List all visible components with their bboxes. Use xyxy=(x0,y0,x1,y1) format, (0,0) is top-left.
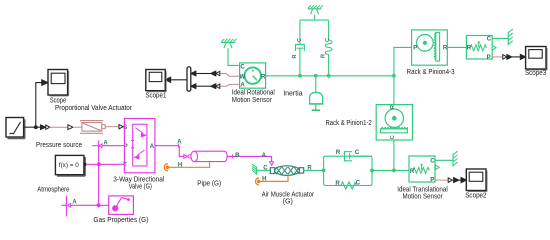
muscle thermal port H xyxy=(256,175,288,185)
wire bus up to rack4-3 xyxy=(394,47,412,75)
arrow into Scope3 xyxy=(520,54,525,59)
svg-text:A: A xyxy=(177,139,182,145)
svg-text:T: T xyxy=(123,163,127,169)
label Pipe (G) xyxy=(197,181,221,188)
spring-damper loop frame xyxy=(324,156,372,185)
spring labels xyxy=(335,181,360,188)
spring bottom branch xyxy=(341,182,356,189)
ps wire actuator to valve S xyxy=(105,126,119,128)
port T xyxy=(123,163,127,169)
port P xyxy=(124,144,128,150)
label Scope3 xyxy=(525,70,546,77)
wire pipe B to muscle A xyxy=(227,154,271,161)
label Rack & Pinion1-2 xyxy=(325,120,371,127)
label Proportional Valve Actuator xyxy=(55,105,133,112)
junction below rack1-2 xyxy=(392,169,396,173)
scope Scope2 xyxy=(466,169,487,192)
svg-text:R: R xyxy=(443,46,448,52)
junction loop left xyxy=(322,169,326,173)
block Pipe (G) xyxy=(191,151,227,161)
svg-text:R: R xyxy=(335,181,340,187)
wire valve A to pipe xyxy=(155,144,184,157)
mux xyxy=(187,67,191,91)
svg-text:Scope1: Scope1 xyxy=(145,92,166,99)
connection label A (to valve P) xyxy=(92,141,108,148)
junction bus spring xyxy=(327,74,331,78)
ps wire P to Scope2 xyxy=(435,179,449,181)
svg-text:A: A xyxy=(240,83,245,89)
junction bus damper xyxy=(298,74,302,78)
svg-text:Pressure source: Pressure source xyxy=(36,142,82,149)
svg-text:Valve (G): Valve (G) xyxy=(129,184,152,191)
spring branch labels xyxy=(321,38,332,58)
svg-text:W: W xyxy=(239,74,245,80)
svg-text:A: A xyxy=(72,200,77,206)
atmosphere connection cross xyxy=(61,196,77,217)
label B xyxy=(235,153,240,159)
svg-text:(G): (G) xyxy=(283,199,293,206)
arrow into mux bottom xyxy=(191,84,196,89)
converter to Scope3 xyxy=(503,55,512,60)
svg-text:Atmosphere: Atmosphere xyxy=(37,186,69,193)
arrow into Scope1 xyxy=(165,77,171,82)
svg-text:A: A xyxy=(150,144,155,150)
wire A-label to valve P xyxy=(102,145,124,147)
wire bus to inertia xyxy=(315,76,317,93)
wall bottom right xyxy=(453,151,458,166)
physical signal wire to actuator xyxy=(73,126,82,128)
svg-text:R: R xyxy=(321,54,327,58)
port R muscle xyxy=(307,165,312,171)
svg-text:C: C xyxy=(325,38,331,42)
label 3-Way Directional Valve (G) xyxy=(113,176,164,190)
block Gas Properties (G) xyxy=(109,196,134,215)
pipe inlet port circle xyxy=(188,155,191,158)
wire wall to muscle xyxy=(257,169,271,171)
rotational damper branch xyxy=(296,20,305,76)
block Air Muscle Actuator (G) xyxy=(270,166,303,176)
wire loop to sensor xyxy=(372,169,409,171)
converter to Scope2 xyxy=(448,178,459,183)
label A at muscle xyxy=(262,153,267,159)
wire to Scope2 xyxy=(459,179,462,181)
svg-text:Motion Sensor: Motion Sensor xyxy=(403,193,444,200)
ps wire W to converter xyxy=(219,74,240,77)
wire to Scope3 xyxy=(512,56,521,58)
label Scope xyxy=(50,98,66,105)
wire A to mux xyxy=(196,85,211,87)
svg-text:Rack & Pinion1-2: Rack & Pinion1-2 xyxy=(325,120,371,127)
label A at pipe inlet xyxy=(177,139,182,145)
converter A xyxy=(211,84,220,89)
vertical trunk wire xyxy=(98,141,100,206)
label Ideal Rotational Motion Sensor xyxy=(232,90,275,104)
svg-text:Rack & Pinion4-3: Rack & Pinion4-3 xyxy=(407,69,455,76)
scope Scope xyxy=(48,70,69,97)
label Gas Properties (G) xyxy=(93,217,148,224)
svg-text:Pipe (G): Pipe (G) xyxy=(197,181,221,188)
arrow into mux top xyxy=(191,71,196,76)
svg-text:C: C xyxy=(390,135,396,139)
block translational sensor (top right) xyxy=(466,36,496,62)
svg-text:Scope: Scope xyxy=(50,98,66,105)
junction loop right xyxy=(370,169,374,173)
wire atmosphere row xyxy=(71,204,109,206)
block Inertia xyxy=(309,92,324,110)
wire ref to sensor C xyxy=(228,48,240,65)
junction atmosphere row xyxy=(97,203,101,207)
wire rack4-3 to sensor xyxy=(447,46,466,48)
svg-text:H: H xyxy=(178,162,182,168)
Simulink-PS converter arrows xyxy=(41,125,50,130)
sensor port letters xyxy=(239,65,266,89)
svg-text:R: R xyxy=(467,46,472,52)
port C muscle xyxy=(263,165,268,171)
wire fx to T junction xyxy=(86,163,124,165)
open triangle into muscle xyxy=(270,162,274,166)
wall top right xyxy=(508,29,513,45)
wire rack1-2 up to bus xyxy=(393,76,395,105)
scope Scope3 xyxy=(526,47,547,71)
open triangle at S xyxy=(119,125,123,129)
tee bar xyxy=(300,19,329,21)
physical signal wire to converter xyxy=(50,126,68,128)
svg-text:R: R xyxy=(292,54,298,58)
rotational spring branch xyxy=(325,20,332,76)
wire W to mux xyxy=(196,73,211,75)
svg-text:C: C xyxy=(356,181,361,187)
rotational reference (top) xyxy=(308,5,323,14)
block Rack & Pinion4-3 xyxy=(412,30,448,65)
svg-text:R: R xyxy=(261,74,266,80)
svg-text:A: A xyxy=(262,153,267,159)
wall at muscle C xyxy=(252,164,257,175)
svg-text:Proportional Valve Actuator: Proportional Valve Actuator xyxy=(55,105,133,112)
svg-text:3-Way Directional: 3-Way Directional xyxy=(113,176,164,183)
label Rack & Pinion4-3 xyxy=(407,69,455,76)
wire mux to Scope1 xyxy=(171,79,188,81)
label H pipe xyxy=(178,162,182,168)
block Rack & Pinion1-2 xyxy=(376,105,412,140)
wire rack1-2 down xyxy=(393,140,395,170)
svg-text:P: P xyxy=(487,55,491,61)
svg-text:Motion Sensor: Motion Sensor xyxy=(232,97,273,104)
block f(x)=0 solver xyxy=(55,155,86,176)
wire source to junction xyxy=(24,126,41,128)
port S xyxy=(123,125,127,131)
svg-text:R: R xyxy=(410,169,415,175)
wire sensor R to bus xyxy=(266,75,394,77)
svg-text:H: H xyxy=(262,177,266,183)
label Ideal Translational Motion Sensor xyxy=(397,186,448,200)
junction at source output xyxy=(34,125,38,129)
svg-text:R: R xyxy=(390,105,396,109)
label Scope1 xyxy=(145,92,166,99)
damper branch labels xyxy=(292,38,303,59)
svg-text:Scope2: Scope2 xyxy=(465,192,486,199)
block Proportional Valve Actuator xyxy=(80,121,105,134)
wire junction up to Scope xyxy=(36,83,42,128)
block Ideal Rotational Motion Sensor xyxy=(240,63,266,88)
svg-text:R: R xyxy=(336,150,341,156)
port A valve xyxy=(150,144,155,150)
svg-text:P: P xyxy=(413,46,417,52)
label Atmosphere xyxy=(37,186,69,193)
svg-text:Ideal Rotational: Ideal Rotational xyxy=(232,90,275,97)
svg-text:f(x) = 0: f(x) = 0 xyxy=(59,162,80,169)
wire ref to tee xyxy=(314,15,316,21)
open triangle pipe inlet xyxy=(184,155,188,159)
svg-text:Inertia: Inertia xyxy=(283,90,302,97)
svg-text:Gas Properties (G): Gas Properties (G) xyxy=(93,217,148,224)
svg-text:C: C xyxy=(297,38,303,42)
label H muscle xyxy=(262,177,266,183)
label Air Muscle Actuator xyxy=(262,192,315,206)
ps wire P to Scope3 xyxy=(492,56,503,58)
svg-text:C: C xyxy=(355,150,360,156)
arrow into Scope xyxy=(42,80,48,86)
ps wire A to converter xyxy=(219,84,240,86)
wire muscle R to loop xyxy=(304,169,324,171)
junction T row xyxy=(97,162,101,166)
svg-text:C: C xyxy=(430,159,435,165)
label Inertia xyxy=(283,90,302,97)
scope Scope1 xyxy=(146,70,166,92)
block 3-Way Directional Valve (G) xyxy=(124,119,154,173)
svg-text:C: C xyxy=(240,65,245,71)
pipe thermal port H xyxy=(164,162,209,171)
label Pressure source xyxy=(36,142,82,149)
converter open triangle xyxy=(68,125,73,130)
svg-text:B: B xyxy=(235,153,240,159)
wire sensor C to wall (bottom) xyxy=(435,159,453,161)
damper top branch xyxy=(344,152,372,161)
source block: Pressure source (ramp) xyxy=(6,118,25,139)
svg-text:C: C xyxy=(263,165,268,171)
svg-text:P: P xyxy=(430,177,434,183)
converter W xyxy=(211,71,220,76)
rotational reference (mux area) xyxy=(221,39,236,48)
damper labels xyxy=(336,150,360,156)
wire sensor C to wall xyxy=(492,37,508,39)
label Scope2 xyxy=(465,192,486,199)
block Ideal Translational Motion Sensor xyxy=(409,156,439,183)
svg-text:Scope3: Scope3 xyxy=(525,70,546,77)
junction bus inertia xyxy=(314,74,318,78)
svg-text:C: C xyxy=(487,37,492,43)
arrow into Scope2 xyxy=(461,177,466,182)
junction bus right xyxy=(392,74,396,78)
